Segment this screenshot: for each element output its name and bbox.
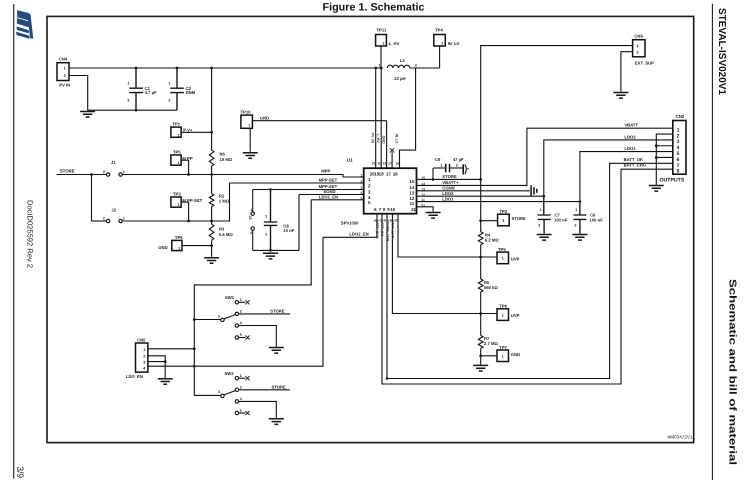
svg-text:2: 2 [103, 216, 105, 220]
svg-text:2: 2 [538, 224, 540, 228]
svg-text:2: 2 [240, 310, 242, 314]
svg-text:17: 17 [388, 161, 392, 165]
svg-text:STEVAL-ISV020V1: STEVAL-ISV020V1 [716, 8, 727, 95]
svg-text:M PP-SET: M PP-SET [182, 198, 202, 203]
svg-text:1: 1 [168, 82, 170, 86]
svg-text:18: 18 [379, 171, 384, 176]
svg-text:GND: GND [381, 136, 385, 144]
svg-text:U1: U1 [347, 157, 353, 162]
svg-text:GND: GND [260, 116, 269, 121]
svg-text:2: 2 [575, 224, 577, 228]
svg-text:10 nF: 10 nF [283, 228, 294, 233]
svg-text:MPP: MPP [321, 169, 330, 174]
svg-text:DNM: DNM [186, 90, 196, 95]
svg-text:L_HV: L_HV [376, 134, 380, 144]
svg-text:1: 1 [368, 177, 371, 182]
svg-text:11: 11 [421, 198, 425, 202]
svg-text:2: 2 [415, 63, 417, 67]
svg-text:19: 19 [377, 161, 381, 165]
svg-text:1: 1 [382, 42, 384, 46]
svg-text:47 µF: 47 µF [453, 157, 464, 162]
svg-text:1: 1 [502, 218, 505, 223]
svg-text:14: 14 [409, 185, 414, 190]
svg-text:CN2: CN2 [676, 114, 685, 119]
svg-text:P V+: P V+ [183, 127, 193, 132]
svg-text:1: 1 [248, 124, 250, 128]
svg-text:VBATT: VBATT [624, 123, 638, 128]
svg-text:22 µH: 22 µH [394, 76, 405, 81]
svg-text:16: 16 [396, 161, 400, 165]
svg-text:1: 1 [360, 174, 362, 178]
svg-text:Figure 1. Schematic: Figure 1. Schematic [322, 1, 424, 13]
svg-text:1: 1 [123, 170, 125, 174]
svg-text:17: 17 [386, 171, 391, 176]
svg-text:BATT_OK: BATT_OK [624, 157, 643, 162]
svg-text:1: 1 [240, 298, 242, 302]
svg-text:L_HV: L_HV [389, 41, 400, 46]
svg-text:7: 7 [379, 207, 382, 212]
svg-text:1: 1 [540, 208, 542, 212]
svg-text:OUTPUTS: OUTPUTS [660, 178, 685, 184]
svg-text:3: 3 [143, 360, 145, 364]
svg-text:1: 1 [441, 42, 443, 46]
svg-text:11: 11 [410, 201, 415, 206]
svg-text:GND: GND [158, 245, 167, 250]
svg-text:13: 13 [409, 190, 414, 195]
svg-text:5.6 MΩ: 5.6 MΩ [219, 232, 233, 237]
svg-text:TP4: TP4 [435, 28, 443, 33]
svg-text:1: 1 [178, 247, 180, 251]
svg-text:CN6: CN6 [634, 34, 643, 39]
svg-text:2: 2 [368, 183, 371, 188]
svg-text:J2: J2 [111, 208, 116, 213]
svg-text:3: 3 [218, 390, 220, 394]
svg-text:21: 21 [411, 207, 416, 212]
svg-text:1: 1 [127, 82, 129, 86]
svg-text:4.7 µF: 4.7 µF [145, 90, 157, 95]
svg-text:1: 1 [502, 256, 505, 261]
svg-text:1: 1 [178, 133, 180, 137]
svg-text:2: 2 [360, 180, 362, 184]
svg-text:6.2 MΩ: 6.2 MΩ [485, 238, 499, 243]
svg-text:6: 6 [374, 207, 377, 212]
svg-text:J1: J1 [111, 160, 116, 165]
svg-text:4: 4 [143, 367, 146, 371]
svg-text:CN5: CN5 [137, 338, 146, 343]
svg-text:100 nF: 100 nF [590, 217, 604, 222]
svg-text:UVP: UVP [511, 313, 520, 318]
svg-text:CONN: CONN [442, 186, 454, 191]
svg-text:TP2: TP2 [500, 209, 508, 214]
svg-text:TP1: TP1 [172, 122, 180, 127]
svg-text:3/9: 3/9 [14, 467, 25, 479]
svg-text:C9: C9 [435, 157, 441, 162]
svg-text:5: 5 [360, 196, 362, 200]
svg-text:2: 2 [64, 74, 66, 78]
svg-text:2: 2 [456, 163, 458, 167]
svg-text:4: 4 [240, 321, 242, 325]
svg-text:15: 15 [409, 179, 414, 184]
svg-text:STORE_UVP: STORE_UVP [385, 220, 389, 242]
svg-text:14: 14 [421, 182, 425, 186]
svg-text:EXT_SUP: EXT_SUP [635, 60, 654, 65]
svg-text:100 nF: 100 nF [554, 217, 568, 222]
svg-text:1: 1 [123, 216, 125, 220]
svg-text:1: 1 [240, 374, 242, 378]
svg-text:L2: L2 [400, 58, 406, 63]
svg-text:STORE: STORE [270, 309, 285, 314]
svg-text:1: 1 [502, 312, 505, 317]
svg-text:10 MΩ: 10 MΩ [220, 157, 233, 162]
svg-text:DocID025592 Rev 2: DocID025592 Rev 2 [26, 200, 35, 268]
svg-text:TP10: TP10 [241, 110, 252, 115]
svg-text:LDO_EN: LDO_EN [126, 374, 143, 379]
svg-text:R6: R6 [220, 152, 226, 157]
svg-text:STORE: STORE [60, 169, 75, 174]
svg-text:LDO2: LDO2 [442, 191, 454, 196]
svg-text:LDO1_EN: LDO1_EN [319, 195, 338, 200]
svg-text:5: 5 [240, 409, 242, 413]
svg-text:BATT_CHG: BATT_CHG [624, 163, 647, 168]
svg-text:TP11: TP11 [377, 28, 387, 33]
svg-text:8: 8 [677, 169, 680, 175]
svg-text:1: 1 [143, 348, 145, 352]
svg-text:2: 2 [637, 50, 639, 54]
svg-text:4: 4 [360, 191, 362, 195]
svg-text:TP5: TP5 [173, 150, 181, 155]
svg-text:2: 2 [265, 232, 267, 236]
svg-text:4: 4 [240, 397, 242, 401]
svg-text:3: 3 [368, 190, 371, 195]
svg-text:AM03472V1: AM03472V1 [667, 435, 693, 440]
svg-text:J3: J3 [248, 216, 252, 220]
svg-text:2: 2 [240, 386, 242, 390]
svg-text:5: 5 [368, 200, 371, 205]
svg-text:2: 2 [127, 99, 129, 103]
svg-text:CN4: CN4 [59, 57, 68, 62]
svg-text:VBATT+: VBATT+ [442, 180, 459, 185]
svg-text:TP6: TP6 [175, 235, 183, 240]
svg-text:2: 2 [250, 231, 252, 235]
svg-text:LDO2_EN: LDO2_EN [349, 232, 368, 237]
svg-text:2: 2 [103, 170, 105, 174]
svg-text:1: 1 [502, 354, 505, 359]
svg-text:PV_IN: PV_IN [370, 133, 374, 144]
svg-text:SPV1050: SPV1050 [341, 221, 359, 226]
svg-text:STORE: STORE [512, 216, 527, 221]
svg-text:R3: R3 [219, 226, 225, 231]
svg-text:15: 15 [421, 176, 425, 180]
svg-text:TP3: TP3 [173, 192, 181, 197]
svg-text:TP6: TP6 [499, 304, 507, 309]
svg-text:13: 13 [421, 187, 425, 191]
svg-text:1: 1 [378, 63, 380, 67]
svg-text:20: 20 [372, 161, 376, 165]
svg-text:10: 10 [390, 207, 395, 212]
svg-text:TP5: TP5 [498, 247, 506, 252]
svg-text:16: 16 [393, 171, 398, 176]
svg-text:1: 1 [441, 163, 443, 167]
svg-text:1: 1 [178, 161, 180, 165]
svg-text:1: 1 [265, 214, 267, 218]
svg-text:2: 2 [143, 354, 145, 358]
svg-text:1: 1 [250, 208, 252, 212]
svg-text:TP7: TP7 [499, 345, 507, 350]
svg-text:SW1: SW1 [225, 295, 235, 300]
svg-text:5: 5 [240, 333, 242, 337]
svg-text:SW2: SW2 [225, 371, 235, 376]
svg-text:4: 4 [368, 195, 371, 200]
svg-text:LDO1: LDO1 [442, 196, 454, 201]
svg-text:1 MΩ: 1 MΩ [219, 199, 230, 204]
svg-text:21: 21 [421, 204, 425, 208]
svg-text:LDO1: LDO1 [624, 146, 636, 151]
svg-text:BATT_CHG: BATT_CHG [375, 220, 379, 240]
svg-text:18: 18 [383, 161, 387, 165]
svg-text:IN_LV: IN_LV [394, 134, 398, 145]
svg-text:12: 12 [409, 196, 414, 201]
svg-text:1: 1 [64, 67, 66, 71]
svg-text:2: 2 [168, 99, 170, 103]
svg-text:8: 8 [383, 207, 386, 212]
svg-text:BATT_UVP: BATT_UVP [391, 220, 395, 239]
svg-text:1: 1 [178, 203, 180, 207]
svg-text:UVP: UVP [511, 257, 520, 262]
svg-text:M PP: M PP [182, 156, 192, 161]
svg-text:IN_LV: IN_LV [448, 41, 460, 46]
svg-text:3: 3 [360, 186, 362, 190]
svg-text:SGND: SGND [323, 189, 335, 194]
svg-text:1: 1 [575, 208, 577, 212]
svg-text:BATT_OK: BATT_OK [380, 220, 384, 237]
svg-text:LDO2: LDO2 [624, 134, 636, 139]
svg-text:MPP-SET: MPP-SET [319, 178, 338, 183]
svg-text:GND: GND [511, 352, 520, 357]
svg-text:STORE: STORE [272, 384, 287, 389]
svg-text:560 kΩ: 560 kΩ [484, 285, 498, 290]
svg-text:1: 1 [637, 44, 639, 48]
svg-text:STORE: STORE [442, 174, 457, 179]
svg-text:3: 3 [218, 314, 220, 318]
svg-text:PV IN: PV IN [59, 83, 70, 88]
svg-text:2.7 MΩ: 2.7 MΩ [484, 341, 498, 346]
svg-text:Schematic and bill of material: Schematic and bill of material [727, 279, 738, 465]
svg-text:12: 12 [421, 193, 425, 197]
